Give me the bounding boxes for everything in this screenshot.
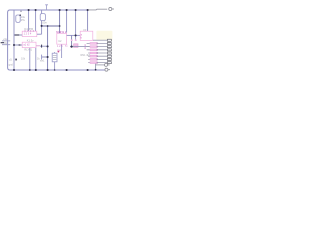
svg-text:a1 b2: a1 b2 [23,44,30,47]
svg-text:RN1 4k7: RN1 4k7 [81,54,91,57]
wire vertical through C2 (x41.6) [41,10,43,34]
svg-text:25v: 25v [21,18,26,22]
wire vertical to IC1 pin (x28.6) [28,10,30,31]
wire vertical V1 left long [13,10,15,70]
wire y57 stub [42,56,48,58]
node junction dots on top rail [20,9,88,12]
wire K1 left pin [14,44,22,46]
node junction dot bus corner U2 [59,25,61,27]
connector J1 pins and wires [93,39,111,63]
svg-text:RLY01: RLY01 [24,48,32,52]
svg-text:U2: U2 [58,39,62,43]
IC U2 box [57,33,67,44]
node junction dot x47.6 [47,45,49,47]
capacitor C2 [40,14,47,25]
wire vertical mid long (x47.6) [47,26,49,70]
crystal load caps [74,44,78,48]
wire vertical to U2 (x66.6) [66,10,68,33]
node terminal TP3 [105,68,110,71]
capacitor mark x41.6 [41,45,43,48]
capacitor C1 [16,14,26,22]
wire bus y26 [42,25,60,27]
wire top rail gray segment [88,8,108,11]
IC1 box [22,31,37,37]
battery B1 [52,52,57,62]
pin marks above U2 [57,31,66,34]
wire vertical to U3 top (x87.6) [87,10,89,31]
wire vertical to IC1 pin (x35.6) [35,10,37,31]
node junction dots on ground rail [13,69,97,71]
supply widget left edge [1,38,11,45]
node junction dot bus-x47 [47,25,49,27]
svg-text:1 2 3 4: 1 2 3 4 [24,33,32,36]
node junction dot y46.6 [71,46,73,48]
node junction dot K1 left [13,44,15,46]
power flag above rail [45,5,48,11]
svg-text:K1 5v: K1 5v [27,38,34,42]
wire vertical under relay K1 (x35.8) [35,48,37,70]
note area (cream label) [96,31,112,41]
polarity mark K1 left [19,44,21,46]
diode D1 mark [15,59,17,61]
node junction dot C2-bus [41,25,43,27]
wire outer loop (VCC top rail, left rail, GND bottom rail) [8,10,105,70]
wire under B1 (x54.6) [54,62,56,70]
wire IC1 right pin [37,33,42,35]
wire IC1 left pin [14,34,22,36]
wire vertical x75.6 [75,10,77,40]
wire drop x71.6 [71,35,73,46]
wire U2 bottom pin (x61.6) [61,44,63,58]
cap mark c6 [75,39,77,41]
red marker dot [58,51,60,53]
wire bottom-right terminal upper [96,64,105,66]
svg-text:1 2 5: 1 2 5 [57,45,63,48]
svg-text:sw1: sw1 [40,59,45,62]
wire U2 right to U3 (y35.4) [67,34,81,36]
switch mark x41.6 [41,55,43,60]
wire IC1 left pin dark [15,34,20,36]
resistor network RN1 [81,43,99,64]
node junction dot y35.4 [75,34,77,36]
wire bottom-right return (x95.6) [95,62,97,70]
svg-text:gnd: gnd [9,64,14,67]
node terminal TP2 [105,63,110,66]
node top-right terminal [109,7,114,10]
wire y46.6 to resistor row [70,46,90,48]
wire vertical to U2 top (x59.6) [59,10,61,33]
IC U3 box [80,31,93,40]
svg-text:100n: 100n [41,20,47,24]
cap mark c5 [71,39,73,41]
relay K1 box [22,42,36,47]
node junction dot y57 [47,56,49,58]
wire vertical under relay K1 (x29.8) [29,48,31,70]
wire K1 right pin [36,45,40,47]
